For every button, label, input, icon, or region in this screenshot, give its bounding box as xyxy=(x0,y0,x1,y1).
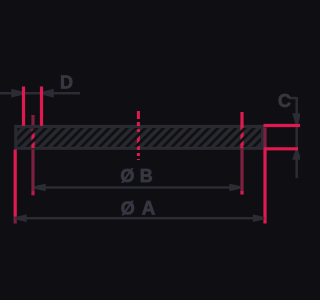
extension line B-left in-bar segment (red, under hatch) xyxy=(31,130,34,149)
center line (red dash-dot, under hatch in bar) xyxy=(137,111,140,160)
extension lines for dimension C (red) xyxy=(264,126,301,149)
svg-text:C: C xyxy=(278,91,291,111)
svg-text:D: D xyxy=(60,73,73,93)
hatch stripes overlay xyxy=(17,128,261,147)
svg-text:Ø: Ø xyxy=(121,199,135,219)
dimension line D with outside arrowheads xyxy=(0,90,80,96)
extension line B-right above/below bar (red/maroon) xyxy=(240,112,243,195)
disc cross-section bar: slab + outline xyxy=(16,126,263,148)
extension lines for dimension D (red) xyxy=(24,87,42,126)
dimension line C with leader and arrowheads xyxy=(289,97,300,178)
svg-text:B: B xyxy=(140,166,153,186)
svg-text:A: A xyxy=(142,199,156,220)
svg-text:Ø: Ø xyxy=(120,166,134,186)
dimension line B with inside arrowheads xyxy=(35,185,241,190)
extension line B-left above/below bar (red/maroon) xyxy=(31,115,34,195)
extension line B-right in-bar segment (red, under hatch) xyxy=(240,127,243,149)
extension lines for dimension A (red) xyxy=(15,128,265,224)
dimension line A with inside arrowheads xyxy=(16,216,265,221)
